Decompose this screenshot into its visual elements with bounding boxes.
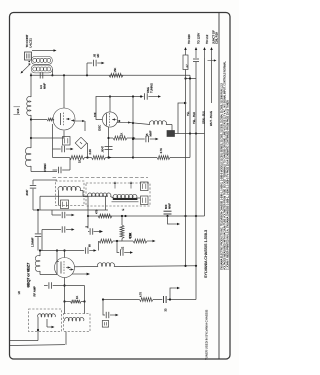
arrow to junction [208,60,215,62]
svg-text:YEL - BLK: YEL - BLK [192,112,196,124]
cathode resistor loop [65,285,85,287]
node [86,74,88,76]
svg-text:1K: 1K [77,160,81,163]
capacitor 47MMF [53,169,58,171]
left cap branch [87,196,89,228]
bus line B2 [195,49,197,58]
wire row y210 [33,209,108,211]
plate arrow wire [117,122,130,124]
winding stub [51,69,53,75]
capacitor mid stub [52,214,61,216]
svg-text:L4,C21: L4,C21 [28,38,32,48]
wire [37,317,39,341]
capacitor .0047 [30,185,36,187]
slug arrow [46,319,48,327]
node [107,156,109,158]
cathode wire [30,137,32,139]
capacitor stub [53,148,61,150]
svg-text:1.5MMF: 1.5MMF [30,237,34,247]
resistor 470 [98,214,112,218]
resistor 470K [133,239,147,243]
resistor 470K input [98,241,100,251]
wire [41,230,43,251]
svg-text:MF: MF [96,53,100,57]
signal arrow out [75,120,84,122]
svg-text:SYLVANIA CHASSIS 1-508-3: SYLVANIA CHASSIS 1-508-3 [204,230,208,278]
node [124,215,126,217]
feedthru capacitor 33 [163,296,165,303]
coil L10 [38,314,56,317]
coil L7 [98,263,115,267]
bracket cap 22 [117,241,119,253]
tube V2 [102,112,117,127]
wire [30,73,32,97]
wire [30,115,32,148]
svg-text:.0047: .0047 [25,189,29,196]
arrow out [148,96,159,98]
svg-text:OSC: OSC [97,125,101,131]
capacitor 3.3MMF [39,72,41,78]
transformer T1 secondary winding [31,65,52,73]
bus elbow W1 down [189,75,191,157]
coil LC [113,194,137,198]
wire elbow [122,239,133,242]
grid corner wire [96,97,143,120]
cathode down [64,278,66,302]
bus line B1 [185,49,187,55]
glyph box [102,321,108,328]
antenna coil LA [58,186,80,190]
cathode row [40,274,57,276]
coil L6 [39,251,41,257]
svg-text:MMF: MMF [168,203,172,209]
wire [87,143,89,158]
svg-text:1K: 1K [75,296,79,299]
tuning slug arrow [22,64,31,73]
svg-text:15K: 15K [113,68,117,73]
vertical bus x133 [132,97,134,158]
cross tie [186,78,197,80]
grid wire to V1 [31,119,47,121]
capacitor .05MF [93,60,95,66]
arrow to L4 [32,50,55,52]
resistor 1K [53,157,70,159]
coil LB [88,193,111,196]
capacitor 1.5MMF [140,95,142,97]
bus line B4 [211,49,213,58]
svg-text:470K: 470K [128,233,132,239]
svg-text:10K: 10K [93,112,97,117]
svg-text:6BQ7 or 6BZ7: 6BQ7 or 6BZ7 [25,262,30,288]
capacitor 35MMF stub [133,138,145,140]
terminal box [25,52,32,60]
svg-text:.0047: .0047 [100,145,104,152]
elbow arrow to bus [178,103,180,134]
coil L5 [25,147,31,166]
elbow arrow [170,288,172,300]
border frame [10,13,231,360]
svg-text:47MMF: 47MMF [43,163,47,172]
resistor 10K cathode [109,137,114,139]
resistor 2.2K [88,157,92,159]
core bar [113,198,138,200]
svg-text:TO 125V: TO 125V [197,33,201,44]
tube V3 RF amplifier [55,258,75,278]
long osc wire [114,265,196,268]
wire [175,133,205,135]
caption column divider [218,13,220,360]
wire row y216 [88,215,205,217]
wire [52,124,54,158]
svg-text:TO L12: TO L12 [205,34,209,44]
svg-text:600: 600 [164,204,168,209]
wire to frame [10,340,38,342]
wire into box B2 left [64,302,66,314]
node [63,74,65,76]
wire into box B2 [84,302,86,314]
dashed coil box C [56,181,85,206]
wire [30,166,32,172]
svg-text:C28, R19: C28, R19 [215,32,219,44]
node [30,118,32,120]
capacitor 1.5MMF [37,210,39,233]
coil L3 [27,97,31,116]
test point diamond [75,137,87,149]
switch contact box [141,182,149,191]
grid wire [56,251,58,262]
arrow out [97,62,102,64]
svg-text:TUNING: TUNING [150,83,154,93]
wire row y250 [40,250,84,252]
switch contact box [141,196,149,205]
wire from box B2 bottom [65,332,67,345]
transformer T1 primary winding [31,57,52,65]
resistor 4.7K [157,156,170,160]
glyph box [61,200,69,209]
padder capacitor [167,131,175,137]
svg-text:E: E [121,209,125,211]
tube V1 [53,108,75,130]
svg-text:WHT - BLUE: WHT - BLUE [209,111,213,126]
wire W1 [31,74,190,76]
svg-text:916: 916 [16,108,20,113]
svg-text:3.3: 3.3 [39,85,43,89]
svg-text:1K: 1K [120,133,124,136]
coupling stub [86,63,88,75]
wire [166,124,172,126]
dashed box A [29,309,62,332]
resistor 1.8K vertical [121,216,123,225]
svg-text:RF AMP: RF AMP [32,286,36,297]
bus line B3 [204,49,206,58]
wire plate [109,97,111,112]
svg-text:TUNER USED IN SYLVANIA CHASSIS: TUNER USED IN SYLVANIA CHASSIS [205,310,209,360]
capacitor stub [44,285,48,287]
plate top wire [64,251,66,258]
elbow arrow [168,216,170,224]
capacitor out [84,247,86,253]
coil L9 [150,121,167,125]
dashed coil box D [86,183,150,206]
mixer line resistor [103,299,140,301]
capacitor .0047 cathode [105,146,113,148]
signal arrow [72,273,88,275]
node [132,95,134,97]
wire row y196 [40,195,108,197]
svg-text:4.7K: 4.7K [159,148,163,154]
capacitor stub [42,229,61,231]
wire [33,179,57,181]
dashed shield edge [53,177,149,179]
cap branch [103,300,105,316]
wire to frame 2 [10,344,65,347]
svg-text:2.2K: 2.2K [88,149,92,155]
svg-text:4.7K: 4.7K [140,292,143,297]
svg-text:MMF: MMF [149,130,153,136]
plate lead to W1 [63,75,65,108]
svg-text:C JOHN F. RIDER PRINTED IN U.: C JOHN F. RIDER PRINTED IN U.S.A. SYLVAN… [226,100,229,270]
svg-text:470: 470 [94,209,98,214]
dashed box B2 [64,314,91,332]
svg-text:FINE: FINE [146,87,150,93]
arrow out [106,157,110,159]
wire row [109,157,134,159]
cathode lead V2 [108,127,110,158]
glyph box [63,137,71,146]
coil L11 [65,318,84,321]
node [86,156,88,158]
label 916 [14,106,21,108]
svg-text:YEL: YEL [187,111,190,116]
wire [137,197,141,199]
resistor 15K [109,73,123,77]
capacitor 600MMF [166,215,168,217]
svg-text:TO R20: TO R20 [187,34,191,44]
svg-text:GRN - BLU: GRN - BLU [202,111,206,124]
svg-text:MMF: MMF [43,83,47,89]
junction dots [28,61,30,63]
slug arrows [114,183,116,189]
resistor 1K [65,301,71,303]
node [107,137,109,139]
